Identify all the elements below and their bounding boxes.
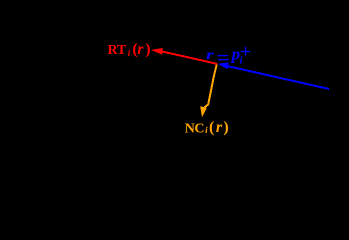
svg-text:N: N — [185, 121, 195, 136]
svg-text:r: r — [206, 47, 214, 62]
svg-text:): ) — [223, 119, 228, 136]
wire: red arrow shaft from point p to RT label — [160, 51, 217, 64]
red arrowhead pointing left at RT label — [151, 48, 163, 55]
plus superscript drawn as two bars — [245, 47, 246, 56]
wire: blue ray from point p toward lower right — [228, 66, 329, 89]
blue arrowhead at point p (tip pointing up-left) — [218, 62, 229, 69]
svg-text:C: C — [194, 121, 204, 136]
svg-text:(: ( — [209, 119, 214, 136]
svg-text:r: r — [137, 41, 144, 58]
svg-text:): ) — [145, 41, 150, 58]
orange arrowhead pointing down at NC label — [200, 106, 207, 117]
wire: orange arrow shaft from point p down to NC label — [205, 64, 217, 107]
svg-text:r: r — [216, 119, 223, 136]
label RT_i(r) — [108, 41, 151, 58]
equals sign drawn as two bars — [218, 55, 229, 56]
label r = p_i^+ at point p — [206, 44, 250, 66]
svg-text:T: T — [117, 43, 127, 58]
label NC_i(r) — [185, 119, 229, 136]
